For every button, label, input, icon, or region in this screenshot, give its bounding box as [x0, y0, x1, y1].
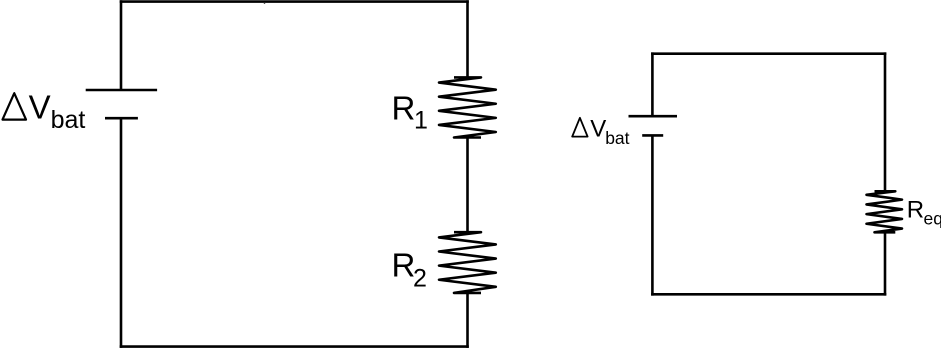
svg-text:R: R: [907, 197, 924, 224]
svg-text:1: 1: [414, 107, 428, 135]
wire: left circuit left side lower (battery to bottom): [120, 118, 123, 348]
delta triangle of right label: [572, 118, 587, 137]
svg-text:R: R: [392, 246, 416, 283]
wire: left circuit left side upper (to battery): [120, 0, 123, 90]
wire: left circuit top: [120, 0, 469, 3]
svg-text:bat: bat: [51, 106, 86, 134]
wire: right circuit right side upper (to Req): [884, 52, 887, 191]
battery V_bat long plate (positive): [86, 89, 157, 92]
wire: below Req to bottom: [884, 232, 887, 295]
battery V_bat (right) short plate: [642, 134, 663, 137]
svg-text:bat: bat: [605, 128, 629, 148]
delta triangle of left label: [3, 93, 27, 119]
wire joint tick: [264, 3, 266, 4]
svg-text:V: V: [29, 89, 51, 126]
wire: left circuit right side top (to R1): [466, 0, 469, 77]
battery V_bat short plate (negative): [105, 117, 138, 120]
svg-text:R: R: [392, 89, 416, 126]
svg-text:2: 2: [413, 264, 427, 292]
wire: right circuit top: [651, 52, 886, 55]
wire: right circuit left side upper (to battery): [651, 52, 654, 116]
battery V_bat (right) long plate: [629, 115, 678, 118]
resistor R1: [439, 77, 496, 137]
resistor R2: [439, 232, 496, 293]
wire: between R1 and R2: [466, 138, 469, 233]
svg-text:eq: eq: [924, 209, 941, 229]
wire: right circuit bottom: [651, 293, 886, 296]
wire: below R2 to bottom: [466, 293, 469, 348]
svg-text:V: V: [590, 115, 606, 142]
resistor Req: [867, 191, 903, 232]
wire: right circuit left side lower: [651, 135, 654, 295]
wire: left circuit bottom: [120, 345, 469, 348]
